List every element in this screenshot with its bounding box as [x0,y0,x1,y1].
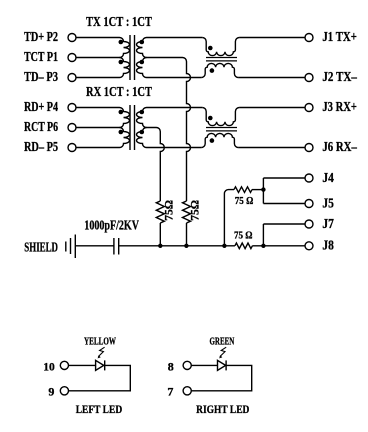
wire to J4 [263,177,305,179]
arrow to green LED [220,347,226,356]
pin circle P4 [68,104,76,112]
capacitor C1 1000pF/2KV [114,238,119,255]
junction dot R3-leg/bus [222,244,226,248]
transformer T1 (TX) [119,35,147,80]
junction dot J7/J8 stem on bus [261,244,265,248]
wire R3 right to J4/J5 stem [252,189,263,191]
svg-text:TX 1CT : 1CT: TX 1CT : 1CT [86,14,152,29]
pin circle P3 [68,74,76,82]
pin circle J4 [305,174,313,182]
svg-text:75 Ω: 75 Ω [234,230,253,241]
svg-text:RX 1CT : 1CT: RX 1CT : 1CT [86,84,152,99]
wire D1 to pin 9 [69,365,131,390]
svg-text:RD– P5: RD– P5 [24,139,58,154]
pin circle P2 [68,34,76,42]
svg-text:RD+ P4: RD+ P4 [24,99,58,114]
svg-text:J3 RX+: J3 RX+ [322,99,357,114]
wire R2 to shield bus [186,223,188,246]
LED D1 yellow triangle [96,360,104,370]
svg-text:LEFT LED: LEFT LED [76,402,123,416]
pin circle 9 [60,387,68,395]
svg-text:75Ω: 75Ω [162,200,176,221]
svg-text:TD+ P2: TD+ P2 [24,29,58,44]
svg-text:J6 RX–: J6 RX– [322,139,357,154]
pin circle J7 [305,220,313,228]
svg-text:J4: J4 [322,170,334,185]
LED D2 green triangle [218,360,226,370]
svg-text:7: 7 [167,384,173,398]
LED D1 cathode bar [104,360,106,370]
svg-text:J8: J8 [322,238,334,253]
wire TD- to T1 [76,77,119,79]
wire RCT to T2 [76,127,119,129]
wire TX center tap with hops [147,58,191,202]
svg-text:8: 8 [168,359,174,373]
junction dot R2/bus [184,244,188,248]
wire choke L1 bottom to J2 [238,77,305,79]
junction dot R1/bus [158,244,162,248]
wire T1 secondary bottom to choke L1 [147,77,202,79]
pin circle J8 [305,242,313,250]
choke top winding [202,38,239,56]
wire D2 to pin 7 [191,365,251,390]
LED D2 cathode bar [225,360,227,370]
shield symbol [66,235,76,259]
T primary winding lower [120,58,130,78]
choke L2 (RX) [201,108,239,148]
T secondary winding lower [137,58,147,78]
T secondary winding upper [137,38,147,58]
wire T1 secondary top to choke L1 [147,37,203,39]
wire to J7 [263,223,305,225]
svg-text:J2 TX–: J2 TX– [322,69,357,84]
svg-text:J7: J7 [322,216,334,231]
arrow to yellow LED [98,347,104,356]
svg-text:J5: J5 [322,195,334,210]
resistor R2 75ohm (vertical, TX CT) [183,201,191,223]
T core [130,35,135,80]
transformer T2 (RX) [119,105,147,150]
pin circle 10 [60,361,68,369]
wire R1 to shield bus [159,223,161,246]
wire T2 secondary top to choke L2 [147,107,203,109]
pin circle 7 [183,387,191,395]
pin circle J6 [305,144,313,152]
node J7/J8 stem [262,224,264,246]
svg-text:75 Ω: 75 Ω [235,196,254,207]
wire choke L1 top to J1 [239,37,305,39]
shield bus wire [119,245,305,247]
wire choke L2 bottom to J6 [238,147,305,149]
wire RD+ to T2 [76,107,119,109]
resistor R1 75ohm (vertical, RX CT) [156,201,164,223]
wire RX center tap with hop [147,128,165,202]
svg-text:75Ω: 75Ω [188,200,202,221]
wire TCT to T1 [76,57,119,59]
wire pin10 to LED D1 [69,364,96,366]
svg-text:J1 TX+: J1 TX+ [322,29,357,44]
wire T2 secondary bottom to choke L2 [147,147,202,149]
pin circle J3 [305,104,313,112]
svg-text:10: 10 [43,359,55,373]
svg-text:YELLOW: YELLOW [84,337,116,348]
wire RD- to T2 [76,147,119,149]
wire shield to capacitor [75,245,113,247]
svg-text:GREEN: GREEN [210,337,235,348]
wire TD+ to T1 [76,37,119,39]
svg-text:1000pF/2KV: 1000pF/2KV [84,218,139,233]
resistor R4 75ohm (horizontal, on bus) [235,243,252,249]
pin circle J5 [305,200,313,208]
svg-text:TCT P1: TCT P1 [24,49,58,64]
pin circle J2 [305,74,313,82]
svg-text:9: 9 [48,384,54,398]
pin circle J1 [305,34,313,42]
pin circle P1 [68,54,76,62]
choke core [206,58,237,61]
choke bottom winding [201,63,238,77]
resistor R3 75ohm (horizontal, J4/J5) [234,187,252,193]
pin circle 8 [183,361,191,369]
T primary winding upper [120,38,130,58]
svg-text:RIGHT LED: RIGHT LED [196,402,250,416]
svg-text:RCT P6: RCT P6 [24,119,58,134]
wire pin8 to LED D2 [191,364,217,366]
choke polarity dots [208,46,213,51]
wire choke L2 top to J3 [239,107,305,109]
pin circle P5 [68,144,76,152]
wire to J5 [263,203,305,205]
svg-text:SHIELD: SHIELD [24,239,58,254]
T polarity dots [119,40,124,45]
wire R3 left to corner down to bus [224,190,234,246]
node J4/J5 stem [262,178,264,204]
svg-text:TD– P3: TD– P3 [24,69,58,84]
junction dot R3/stem [261,187,265,191]
choke L1 (TX) [201,38,239,78]
pin circle P6 [68,124,76,132]
